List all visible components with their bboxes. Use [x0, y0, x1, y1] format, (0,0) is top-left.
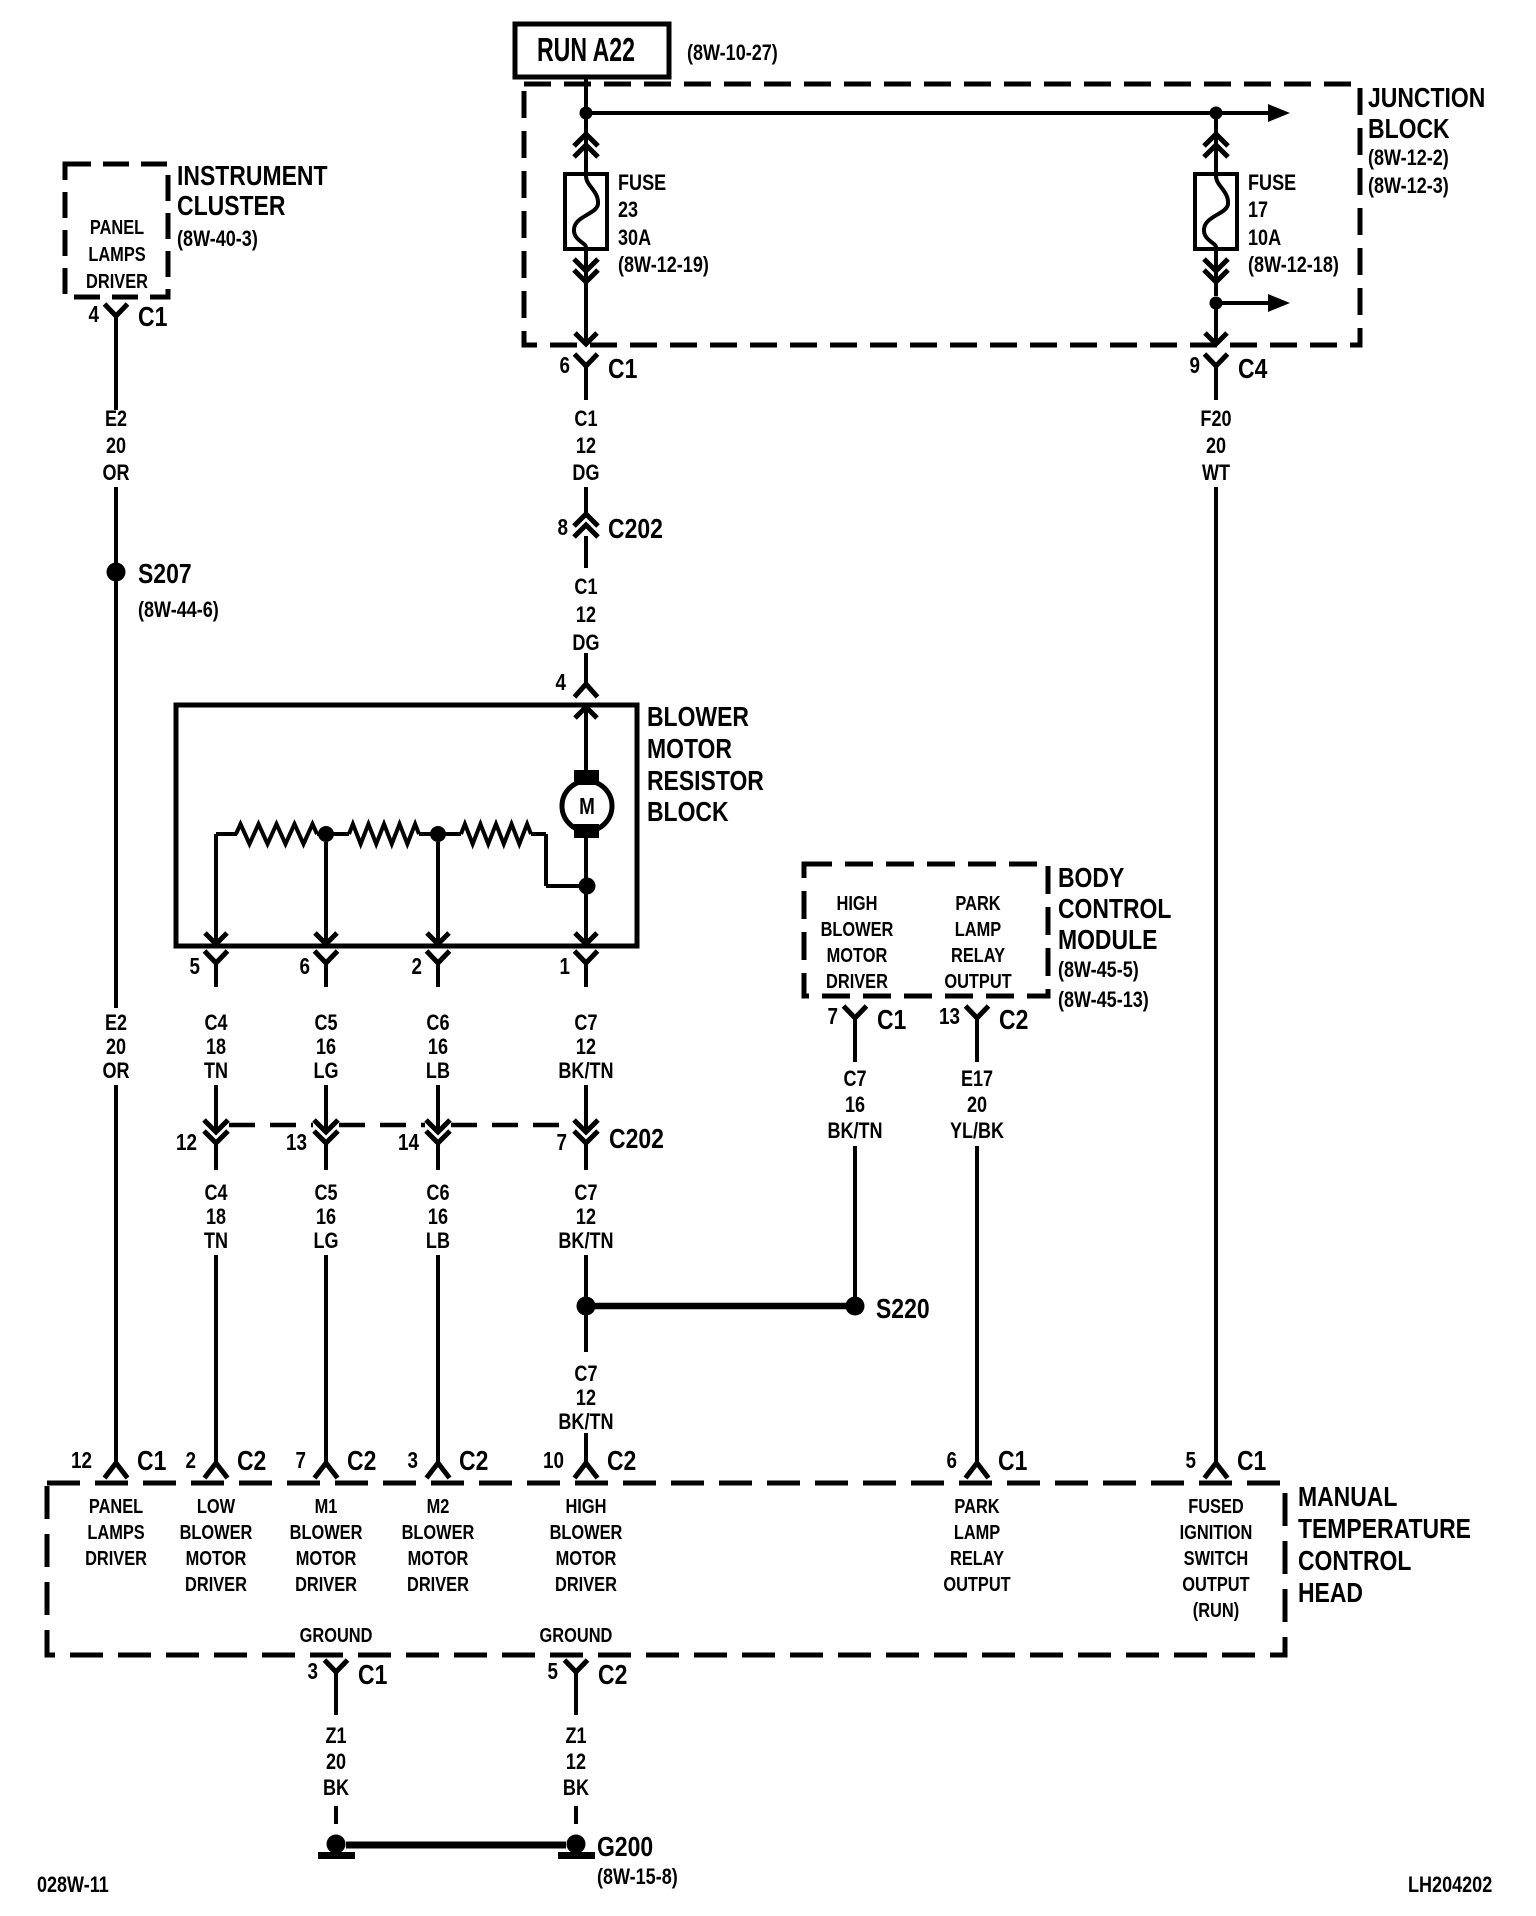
svg-text:C6: C6: [426, 1011, 449, 1035]
splice S220: [846, 1294, 930, 1325]
wire into C202 pin 7: [584, 1085, 588, 1131]
svg-text:C7: C7: [843, 1067, 866, 1091]
instrument cluster title: [177, 161, 328, 252]
resistor R2: [349, 824, 419, 844]
connector 12 C1 control head: [71, 1446, 166, 1478]
node dot fuse 17 output: [1210, 297, 1223, 310]
connector 10 C2 control head: [543, 1446, 636, 1478]
svg-text:LAMP: LAMP: [955, 917, 1001, 940]
svg-text:10A: 10A: [1248, 226, 1281, 250]
svg-text:TEMPERATURE: TEMPERATURE: [1298, 1514, 1471, 1545]
connector 7 C2 control head: [296, 1446, 377, 1478]
connector 13 C2 bcm: [939, 1004, 1028, 1052]
svg-text:(8W-45-5): (8W-45-5): [1058, 958, 1139, 982]
resistor R1: [236, 824, 317, 844]
connector chevrons below fuse 23: [574, 249, 598, 341]
svg-text:5: 5: [1185, 1448, 1196, 1473]
svg-text:CLUSTER: CLUSTER: [177, 191, 285, 222]
wire instrument cluster down: [114, 350, 118, 410]
svg-text:12: 12: [71, 1448, 92, 1473]
wire bcm c2 down: [975, 1052, 979, 1062]
svg-text:FUSE: FUSE: [1248, 171, 1296, 195]
svg-text:C2: C2: [237, 1446, 266, 1477]
arrowhead exit 5: [205, 933, 227, 944]
mtc low blower label: [180, 1494, 253, 1595]
svg-text:(8W-15-8): (8W-15-8): [597, 1865, 678, 1889]
body control module title: [1058, 863, 1171, 1013]
svg-text:C4: C4: [204, 1181, 228, 1205]
mtc ground label left: [300, 1623, 373, 1646]
svg-text:12: 12: [176, 1130, 197, 1155]
svg-text:16: 16: [428, 1035, 448, 1059]
svg-text:C202: C202: [608, 514, 663, 545]
arrowhead entering resistor block: [575, 707, 597, 718]
fuse 23 labels: [618, 171, 709, 277]
connector 8 C202: [558, 514, 663, 568]
wire resistor chain left end: [216, 832, 237, 836]
svg-text:OUTPUT: OUTPUT: [944, 969, 1011, 992]
svg-text:20: 20: [326, 1750, 346, 1774]
mtc high blower label: [550, 1494, 623, 1595]
wire label C4 18 TN upper: [204, 1011, 228, 1083]
svg-text:E2: E2: [105, 407, 127, 431]
svg-text:(8W-10-27): (8W-10-27): [687, 41, 778, 65]
svg-text:MOTOR: MOTOR: [556, 1546, 617, 1569]
wire label E17 20 YL/BK: [950, 1067, 1005, 1143]
splice S207: [107, 559, 219, 623]
svg-text:20: 20: [1206, 434, 1226, 458]
svg-text:FUSE: FUSE: [618, 171, 666, 195]
wire bcm to S220: [853, 1146, 857, 1297]
svg-text:20: 20: [106, 1035, 126, 1059]
connector 5 C1 control head: [1185, 1446, 1266, 1478]
svg-text:LG: LG: [314, 1229, 339, 1253]
svg-text:(8W-12-18): (8W-12-18): [1248, 253, 1339, 277]
svg-text:M1: M1: [315, 1494, 338, 1517]
wire label Z1 12 BK right: [563, 1724, 589, 1800]
svg-text:RESISTOR: RESISTOR: [647, 766, 764, 797]
svg-text:16: 16: [845, 1093, 865, 1117]
wire ground right stub: [574, 1806, 578, 1824]
wire fuse 17 output to border: [1214, 303, 1218, 341]
svg-text:5: 5: [548, 1659, 559, 1684]
body control module dashed box: [804, 864, 1048, 996]
connector C202 pin 13: [286, 1120, 338, 1170]
connector pin 1: [559, 951, 597, 987]
svg-text:C6: C6: [426, 1181, 449, 1205]
motor M1 terminal top: [574, 770, 599, 785]
wire label Z1 20 BK left: [323, 1724, 349, 1800]
wire label C5 16 LG lower: [314, 1181, 339, 1253]
motor terminal bottom: [574, 824, 599, 838]
svg-text:MOTOR: MOTOR: [827, 943, 888, 966]
wire ground left upper: [334, 1700, 338, 1715]
svg-text:BODY: BODY: [1058, 863, 1124, 894]
svg-text:TN: TN: [204, 1229, 228, 1253]
svg-text:INSTRUMENT: INSTRUMENT: [177, 161, 328, 192]
connector chevrons above fuse 23: [574, 113, 598, 174]
wire ground left stub: [334, 1806, 338, 1824]
svg-text:RUN A22: RUN A22: [537, 32, 635, 69]
svg-text:F20: F20: [1200, 407, 1231, 431]
wire into C202 pin 14: [436, 1085, 440, 1131]
connector 3 C1 ground: [308, 1659, 388, 1706]
fuse 17 labels: [1248, 171, 1339, 277]
svg-text:4: 4: [555, 670, 566, 695]
svg-text:DRIVER: DRIVER: [826, 969, 888, 992]
svg-text:HIGH: HIGH: [837, 891, 878, 914]
wire label E2 20 OR upper: [103, 407, 130, 485]
svg-text:9: 9: [1189, 353, 1199, 378]
svg-text:028W-11: 028W-11: [37, 1873, 109, 1897]
svg-text:2: 2: [411, 954, 421, 979]
svg-text:BLOWER: BLOWER: [550, 1520, 623, 1543]
svg-text:6: 6: [299, 954, 309, 979]
node dot between R1 R2: [317, 826, 349, 842]
instrument cluster inner label: [86, 215, 148, 292]
wire label E2 20 OR lower: [103, 1011, 130, 1083]
connector chevrons below fuse 17: [1204, 249, 1228, 296]
svg-text:C7: C7: [574, 1011, 597, 1035]
svg-text:BK: BK: [563, 1776, 589, 1800]
svg-text:PANEL: PANEL: [89, 1494, 143, 1517]
wire label C7 16 BK/TN: [827, 1067, 882, 1143]
node dot between R2 R3: [419, 826, 461, 842]
svg-text:MOTOR: MOTOR: [296, 1546, 357, 1569]
svg-text:LB: LB: [426, 1229, 450, 1253]
key RUN A22 box: [515, 24, 669, 77]
wire label C6 16 LB lower: [426, 1181, 450, 1253]
svg-text:10: 10: [543, 1448, 564, 1473]
wire label C7 12 BK/TN third: [558, 1362, 613, 1434]
svg-text:14: 14: [398, 1130, 419, 1155]
svg-text:12: 12: [576, 1205, 596, 1229]
svg-text:2: 2: [185, 1448, 195, 1473]
connector C202 pin 7: [557, 1120, 598, 1170]
svg-text:BLOCK: BLOCK: [1368, 114, 1450, 145]
splice tie S220: [595, 1303, 846, 1310]
arrowhead at junction block exit right: [1205, 333, 1227, 344]
connector pin 5: [190, 951, 228, 987]
wire M2 blower to control head: [436, 1255, 440, 1462]
svg-text:4: 4: [88, 302, 99, 327]
mtc ground label right: [540, 1623, 613, 1646]
svg-text:7: 7: [296, 1448, 306, 1473]
sheet number 028W-11: [37, 1873, 109, 1897]
svg-text:7: 7: [557, 1130, 567, 1155]
svg-text:BK/TN: BK/TN: [558, 1059, 613, 1083]
svg-text:PARK: PARK: [954, 1494, 1000, 1517]
svg-text:C4: C4: [1238, 354, 1268, 385]
svg-text:(8W-45-13): (8W-45-13): [1058, 988, 1149, 1012]
svg-text:3: 3: [408, 1448, 418, 1473]
mtc m1 blower label: [290, 1494, 363, 1595]
wire DG to resistor block: [584, 653, 588, 684]
svg-text:7: 7: [828, 1004, 838, 1029]
svg-text:HEAD: HEAD: [1298, 1578, 1363, 1609]
svg-text:13: 13: [939, 1004, 960, 1029]
svg-text:17: 17: [1248, 198, 1268, 222]
fuse 23: [565, 174, 607, 249]
svg-text:LAMPS: LAMPS: [88, 242, 145, 265]
svg-text:6: 6: [947, 1448, 957, 1473]
svg-text:FUSED: FUSED: [1188, 1494, 1244, 1517]
svg-text:C1: C1: [137, 1446, 166, 1477]
label C202: [609, 1124, 664, 1155]
svg-text:C7: C7: [574, 1362, 597, 1386]
wire into C202 pin 13: [324, 1085, 328, 1131]
mtc panel lamps label: [85, 1494, 147, 1569]
svg-text:C202: C202: [609, 1124, 664, 1155]
wire exit 5 drop: [214, 834, 218, 943]
wire R3 to node: [531, 834, 580, 886]
connector pin 6: [299, 951, 337, 987]
svg-text:C2: C2: [598, 1660, 627, 1691]
wire label C7 12 BK/TN lower: [558, 1181, 613, 1253]
svg-text:(8W-12-19): (8W-12-19): [618, 253, 709, 277]
connector 3 C2 control head: [408, 1446, 489, 1478]
svg-text:13: 13: [286, 1130, 307, 1155]
blower motor resistor block box: [176, 705, 637, 946]
node dot at fuse 17 feed: [1210, 107, 1223, 120]
wire label C4 18 TN lower: [204, 1181, 228, 1253]
svg-text:MOTOR: MOTOR: [647, 734, 732, 765]
wire low blower to control head: [214, 1255, 218, 1462]
svg-text:C1: C1: [574, 407, 597, 431]
svg-text:6: 6: [559, 353, 569, 378]
svg-text:C7: C7: [574, 1181, 597, 1205]
svg-text:CONTROL: CONTROL: [1058, 894, 1171, 925]
svg-text:(8W-44-6): (8W-44-6): [138, 598, 219, 622]
svg-text:DRIVER: DRIVER: [185, 1572, 247, 1595]
sheet number LH204202: [1408, 1873, 1492, 1897]
svg-text:30A: 30A: [618, 226, 651, 250]
wire M1 blower to control head: [324, 1255, 328, 1462]
svg-text:OUTPUT: OUTPUT: [1182, 1572, 1249, 1595]
svg-text:DRIVER: DRIVER: [555, 1572, 617, 1595]
svg-text:18: 18: [206, 1035, 226, 1059]
svg-text:MOTOR: MOTOR: [408, 1546, 469, 1569]
svg-text:16: 16: [428, 1205, 448, 1229]
node splice dot at fuse 23 feed: [580, 107, 593, 120]
wire below splice: [584, 1315, 588, 1352]
arrowhead exit 6: [315, 933, 337, 944]
junction block dashed box: [524, 84, 1360, 345]
svg-text:GROUND: GROUND: [300, 1623, 373, 1646]
instrument cluster dashed box: [65, 164, 168, 297]
wire ground right upper: [574, 1700, 578, 1715]
svg-text:BK/TN: BK/TN: [558, 1229, 613, 1253]
svg-text:DRIVER: DRIVER: [85, 1546, 147, 1569]
svg-text:12: 12: [576, 1035, 596, 1059]
svg-text:IGNITION: IGNITION: [1180, 1520, 1253, 1543]
svg-text:BK/TN: BK/TN: [558, 1410, 613, 1434]
svg-text:C4: C4: [204, 1011, 228, 1035]
svg-text:C2: C2: [347, 1446, 376, 1477]
svg-text:DG: DG: [572, 461, 599, 485]
svg-text:12: 12: [576, 1386, 596, 1410]
arrowhead exit 2: [427, 933, 449, 944]
svg-text:Z1: Z1: [565, 1724, 586, 1748]
wire S207 down: [114, 580, 118, 1008]
wire motor to node: [584, 838, 588, 886]
svg-text:Z1: Z1: [326, 1724, 347, 1748]
svg-text:JUNCTION: JUNCTION: [1368, 83, 1485, 114]
svg-text:C2: C2: [999, 1005, 1028, 1036]
svg-text:12: 12: [576, 603, 596, 627]
svg-text:16: 16: [316, 1035, 336, 1059]
svg-text:DRIVER: DRIVER: [407, 1572, 469, 1595]
ground G200 left symbol: [318, 1835, 355, 1860]
connector chevrons above fuse 17: [1204, 113, 1228, 174]
svg-text:BLOWER: BLOWER: [402, 1520, 475, 1543]
svg-text:20: 20: [967, 1093, 987, 1117]
svg-text:C1: C1: [608, 354, 637, 385]
svg-text:PARK: PARK: [955, 891, 1001, 914]
svg-text:C5: C5: [315, 1011, 338, 1035]
mtc m2 blower label: [402, 1494, 475, 1595]
svg-text:C1: C1: [358, 1660, 387, 1691]
svg-text:YL/BK: YL/BK: [950, 1119, 1005, 1143]
wire label C1 12 DG upper: [572, 407, 599, 485]
svg-text:GROUND: GROUND: [540, 1623, 613, 1646]
bcm high blower label: [821, 891, 894, 992]
connector 6 C1: [559, 353, 637, 400]
svg-text:(8W-12-2): (8W-12-2): [1368, 146, 1449, 170]
wire bcm c1 down: [853, 1052, 857, 1062]
svg-text:TN: TN: [204, 1059, 228, 1083]
svg-text:C1: C1: [138, 302, 167, 333]
svg-text:(RUN): (RUN): [1193, 1598, 1239, 1621]
svg-text:S207: S207: [138, 559, 192, 590]
wire label C1 12 DG lower: [572, 575, 599, 655]
wire bus across junction block with arrow: [586, 104, 1290, 122]
svg-text:SWITCH: SWITCH: [1184, 1546, 1249, 1569]
svg-text:BLOWER: BLOWER: [180, 1520, 253, 1543]
connector C202 pin 14: [398, 1120, 450, 1170]
svg-text:C1: C1: [998, 1446, 1027, 1477]
wire label C6 16 LB upper: [426, 1011, 450, 1083]
ground G200 right symbol: [558, 1835, 595, 1860]
mtc park lamp label: [943, 1494, 1010, 1595]
svg-text:LAMPS: LAMPS: [87, 1520, 144, 1543]
wire to S207: [114, 487, 118, 565]
svg-text:E17: E17: [961, 1067, 993, 1091]
svg-text:BK: BK: [323, 1776, 349, 1800]
connector C202 pin 12: [176, 1120, 228, 1170]
C202 dashed tie line b: [339, 1123, 425, 1128]
wire RUN A22 to node: [584, 77, 588, 113]
connector 7 C1 bcm: [828, 1004, 907, 1052]
ground G200 label: [597, 1832, 678, 1890]
svg-text:HIGH: HIGH: [565, 1494, 606, 1517]
blower motor resistor block title: [647, 702, 764, 828]
svg-text:BK/TN: BK/TN: [827, 1119, 882, 1143]
svg-text:16: 16: [316, 1205, 336, 1229]
svg-text:C2: C2: [459, 1446, 488, 1477]
wire fused ignition to control head: [1214, 487, 1218, 1462]
svg-text:LOW: LOW: [197, 1494, 236, 1517]
ground tie line: [346, 1842, 566, 1849]
svg-text:LB: LB: [426, 1059, 450, 1083]
connector pin 2: [411, 951, 449, 987]
svg-text:C2: C2: [607, 1446, 636, 1477]
connector 5 C2 ground: [548, 1659, 628, 1706]
svg-text:23: 23: [618, 198, 638, 222]
connector 9 C4: [1189, 353, 1268, 400]
connector 2 C2 control head: [185, 1446, 266, 1478]
svg-text:DRIVER: DRIVER: [86, 269, 148, 292]
svg-text:C1: C1: [574, 575, 597, 599]
svg-text:MANUAL: MANUAL: [1298, 1482, 1397, 1513]
svg-text:(8W-12-3): (8W-12-3): [1368, 174, 1449, 198]
wire to motor: [584, 707, 588, 775]
svg-text:S220: S220: [876, 1294, 930, 1325]
svg-text:LH204202: LH204202: [1408, 1873, 1492, 1897]
svg-text:1: 1: [559, 954, 570, 979]
svg-text:WT: WT: [1202, 461, 1231, 485]
connector 4 C1: [88, 302, 167, 350]
wire exit 6 drop: [324, 842, 328, 943]
svg-text:18: 18: [206, 1205, 226, 1229]
wire high blower to S220: [584, 1255, 588, 1297]
svg-text:OR: OR: [103, 1059, 130, 1083]
connector 4 into resistor block: [555, 670, 597, 697]
svg-text:BLOWER: BLOWER: [821, 917, 894, 940]
svg-text:3: 3: [308, 1659, 318, 1684]
svg-text:C5: C5: [315, 1181, 338, 1205]
svg-text:MOTOR: MOTOR: [186, 1546, 247, 1569]
svg-text:12: 12: [576, 434, 596, 458]
splice dot high blower: [577, 1297, 596, 1316]
node dot resistor common: [579, 878, 596, 895]
wire node to block exit 1: [584, 886, 588, 943]
svg-text:C1: C1: [877, 1005, 906, 1036]
svg-text:E2: E2: [105, 1011, 127, 1035]
svg-text:OR: OR: [103, 461, 130, 485]
wire to high blower driver pin: [584, 1433, 588, 1462]
svg-text:BLOWER: BLOWER: [290, 1520, 363, 1543]
arrowhead exit 1: [575, 933, 597, 944]
svg-text:C1: C1: [1237, 1446, 1266, 1477]
wire panel lamps to control head: [114, 1085, 118, 1462]
fuse 17: [1195, 174, 1237, 249]
svg-text:5: 5: [190, 954, 201, 979]
wire label F20 20 WT: [1200, 407, 1231, 485]
svg-text:DG: DG: [572, 631, 599, 655]
svg-text:(8W-40-3): (8W-40-3): [177, 227, 258, 251]
C202 dashed tie line a: [229, 1123, 313, 1128]
svg-text:LG: LG: [314, 1059, 339, 1083]
motor M: [562, 781, 612, 831]
wire DG to C202: [584, 487, 588, 514]
wire park lamp to control head: [975, 1146, 979, 1462]
wire into C202 pin 12: [214, 1085, 218, 1131]
wire label C5 16 LG upper: [314, 1011, 339, 1083]
svg-text:DRIVER: DRIVER: [295, 1572, 357, 1595]
svg-text:8: 8: [558, 515, 569, 540]
wire label C7 12 BK/TN upper: [558, 1011, 613, 1083]
svg-text:RELAY: RELAY: [951, 943, 1005, 966]
svg-text:20: 20: [106, 434, 126, 458]
C202 dashed tie line c: [451, 1123, 573, 1128]
svg-text:MODULE: MODULE: [1058, 925, 1157, 956]
manual temperature control head dashed box: [47, 1483, 1285, 1655]
svg-text:BLOWER: BLOWER: [647, 702, 749, 733]
svg-text:LAMP: LAMP: [954, 1520, 1000, 1543]
svg-text:RELAY: RELAY: [950, 1546, 1004, 1569]
svg-text:OUTPUT: OUTPUT: [943, 1572, 1010, 1595]
